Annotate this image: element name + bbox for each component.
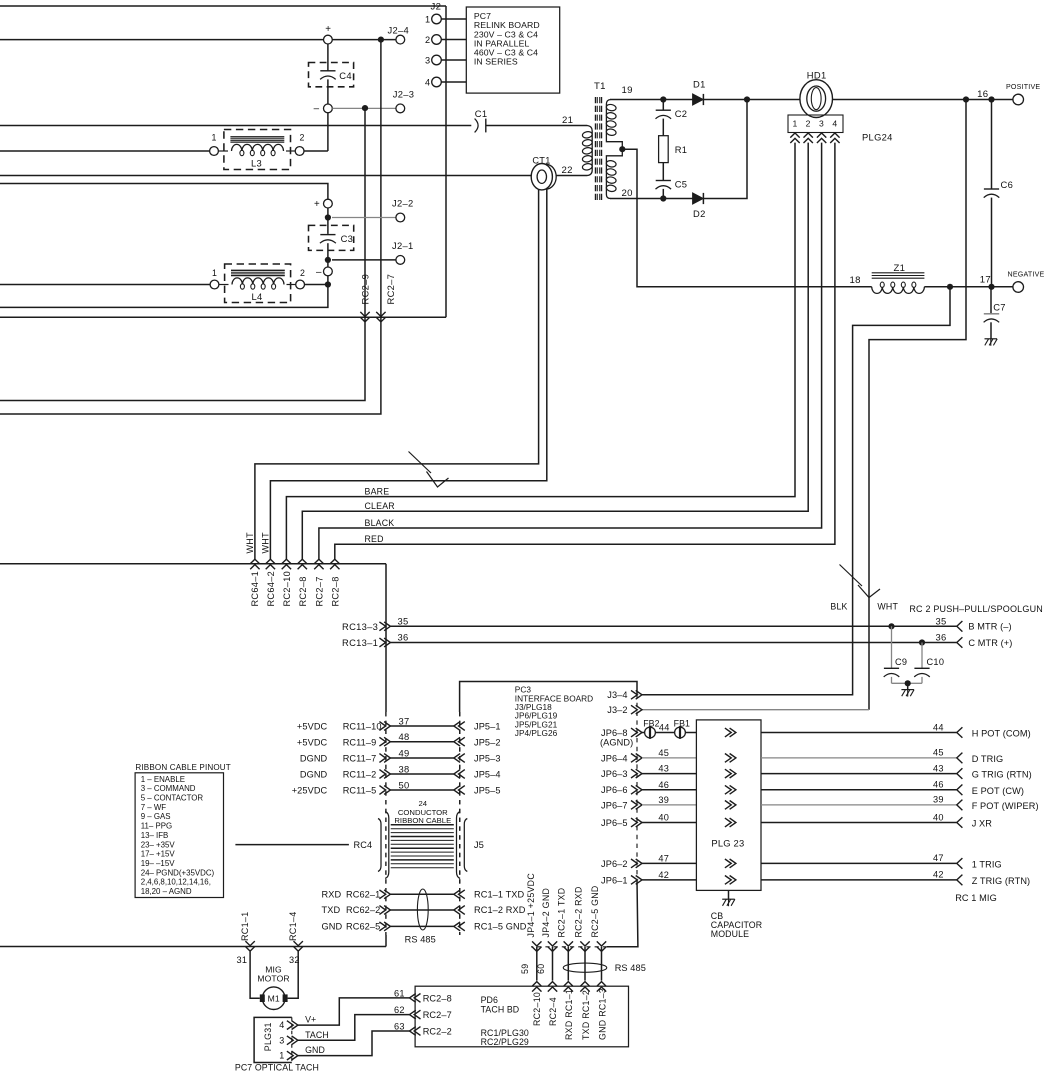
label RC 2 PUSH-PULL/SPOOLGUN — [909, 604, 1043, 614]
svg-text:GND RC1–3: GND RC1–3 — [597, 988, 607, 1040]
wire right chassis boundary — [445, 6, 447, 317]
wire RC4 leader — [235, 844, 349, 846]
wire CLEAR — [302, 143, 808, 560]
inductor Z1 — [872, 263, 925, 293]
label 61 — [394, 989, 405, 999]
wire 20 rail — [610, 198, 693, 200]
wire to J2-2 — [332, 217, 396, 219]
node junction C9 C10 ground — [905, 680, 911, 686]
label 35 left — [398, 615, 409, 626]
wire tach feed 1 — [536, 947, 538, 981]
connector arrow PLG24-3 — [817, 133, 826, 143]
svg-text:JP6–1: JP6–1 — [601, 875, 628, 885]
label TACH — [305, 1030, 329, 1040]
svg-text:1 TRIG: 1 TRIG — [972, 859, 1002, 869]
label PLG31 pin 4 — [279, 1020, 284, 1030]
svg-text:PLG31: PLG31 — [263, 1022, 273, 1051]
wire 42 left segment — [642, 879, 696, 881]
label RS 485 right — [615, 963, 646, 973]
svg-text:RC2–2 RXD: RC2–2 RXD — [573, 886, 583, 937]
inductor L4 — [210, 264, 305, 303]
svg-text:PD6: PD6 — [481, 995, 498, 1005]
svg-text:TACH BD: TACH BD — [481, 1005, 520, 1015]
label C MTR — [968, 638, 1012, 648]
connector arrow PLG31-4 — [287, 1021, 298, 1030]
label J3-4 — [607, 690, 627, 700]
wire WHT to J3-2 — [642, 100, 966, 710]
transformer T1 label — [594, 81, 606, 92]
label 60 — [536, 964, 546, 974]
svg-text:D2: D2 — [693, 208, 706, 219]
connector arrow tach 4 — [580, 982, 589, 992]
svg-text:42: 42 — [933, 870, 944, 880]
connector arrow RC13-1 — [379, 638, 390, 647]
svg-text:44: 44 — [659, 722, 670, 732]
terminal J2-2 — [392, 198, 414, 222]
svg-text:35: 35 — [398, 615, 409, 626]
svg-text:60: 60 — [536, 964, 546, 974]
svg-text:JP6–2: JP6–2 — [601, 859, 628, 869]
label 49 — [399, 747, 410, 758]
svg-text:WHT: WHT — [245, 532, 255, 554]
connector arrow JP6&#8211;4 — [631, 754, 642, 763]
connector arrow JP6&#8211;2 — [631, 859, 642, 868]
wire to C4 plus node — [0, 39, 323, 41]
label E POT (CW) — [972, 786, 1024, 796]
label 43 right — [933, 763, 944, 773]
label 43 left — [658, 764, 669, 774]
svg-text:RXD: RXD — [322, 890, 342, 900]
connector arrow RC2-9 — [360, 312, 369, 322]
terminal POSITIVE — [1006, 83, 1040, 105]
capacitor C9 — [884, 626, 908, 683]
hall sensor HD1 — [800, 70, 833, 118]
connector arrow RC1&#8211;5 GND — [454, 922, 465, 931]
connector arrow JP4 bundle 2 — [548, 941, 557, 951]
capacitor C10 — [908, 643, 945, 684]
svg-text:RC11–5: RC11–5 — [343, 786, 377, 796]
svg-text:RC1–4: RC1–4 — [288, 911, 298, 941]
node junction L4 — [325, 281, 331, 287]
wire BLACK — [319, 143, 822, 560]
label WHT — [877, 602, 898, 612]
svg-text:46: 46 — [658, 780, 669, 790]
svg-text:RC2–7: RC2–7 — [385, 274, 396, 305]
wire tach feed 5 — [601, 947, 603, 981]
node minus terminal C3 — [316, 267, 332, 278]
arrow D TRIG — [957, 753, 963, 764]
label 42 left — [658, 870, 669, 880]
text PC3 block — [515, 685, 593, 739]
svg-text:RC4: RC4 — [354, 840, 373, 850]
svg-text:BLK: BLK — [830, 602, 847, 612]
label TXD RC62&#8211;2 — [322, 905, 381, 915]
svg-text:RC11–7: RC11–7 — [343, 754, 377, 764]
label 31 — [237, 955, 248, 965]
label RC64-1 — [250, 571, 260, 607]
wire center tap to Z1 — [622, 149, 871, 287]
node junction C2 top — [660, 96, 666, 102]
connector J2 pin 2 — [425, 35, 466, 45]
label pin 19 — [622, 85, 633, 96]
label 38 — [399, 763, 410, 774]
svg-text:2,4,6,8,10,12,14,16,: 2,4,6,8,10,12,14,16, — [141, 878, 211, 887]
svg-text:RC2–9: RC2–9 — [359, 274, 370, 305]
svg-text:36: 36 — [398, 632, 409, 643]
node junction C9 — [888, 623, 894, 629]
svg-text:JP4/PLG26: JP4/PLG26 — [515, 728, 558, 738]
wire 50 row — [390, 789, 453, 791]
label PC7 OPTICAL TACH — [235, 1063, 319, 1072]
svg-text:RC2/PLG29: RC2/PLG29 — [481, 1037, 529, 1047]
svg-text:1: 1 — [279, 1051, 284, 1061]
svg-text:RXD RC1–1: RXD RC1–1 — [564, 989, 574, 1040]
connector arrow JP5&#8211;2 — [454, 737, 465, 746]
transformer T1 primary winding — [582, 126, 593, 176]
wire 47 left segment — [642, 862, 696, 864]
svg-text:J2–1: J2–1 — [392, 240, 414, 251]
svg-text:JP4–1 +25VDC: JP4–1 +25VDC — [526, 873, 536, 938]
capacitor C1 — [475, 108, 488, 132]
svg-text:RC11–9: RC11–9 — [343, 737, 377, 747]
label 16 — [977, 89, 988, 100]
svg-text:PLG24: PLG24 — [862, 132, 893, 143]
diode D2 — [693, 193, 706, 219]
svg-text:RC13–3: RC13–3 — [342, 621, 378, 632]
wire BLK to J3-4 — [642, 287, 950, 695]
label RXD RC1-1 — [564, 989, 574, 1040]
wire 19 rail — [610, 99, 693, 101]
svg-text:RC1–1 TXD: RC1–1 TXD — [474, 890, 525, 900]
label 40 right — [933, 812, 944, 822]
connector arrow RC11&#8211;9 — [379, 737, 390, 746]
label JP6&#8211;6 — [601, 785, 628, 795]
ground C7 — [985, 339, 998, 346]
label RC2-8d — [330, 576, 340, 606]
svg-text:J2–3: J2–3 — [393, 88, 415, 99]
connector arrow PLG23 row 47 — [725, 859, 736, 868]
svg-text:18,20 – AGND: 18,20 – AGND — [141, 887, 192, 896]
svg-text:WHT: WHT — [877, 602, 898, 612]
connector arrow PLG23 row 39 — [725, 801, 736, 810]
svg-text:18: 18 — [850, 275, 861, 286]
connector arrow tach RC2&#8211;8 — [410, 994, 421, 1003]
label JP4-1 +25VDC — [526, 873, 536, 938]
svg-text:45: 45 — [658, 748, 669, 758]
svg-text:RC11–10: RC11–10 — [343, 722, 382, 732]
wire 40 left segment — [642, 822, 696, 824]
wire RC2-9 drop — [0, 108, 365, 400]
cable boundary left dashed — [385, 712, 387, 935]
wire 38 row — [390, 773, 453, 775]
label RC2&#8211;7 tach — [423, 1010, 452, 1020]
svg-text:2: 2 — [300, 268, 305, 278]
wire RXD row — [390, 893, 453, 895]
arrow Z TRIG (RTN) — [957, 875, 963, 886]
svg-text:1: 1 — [792, 119, 797, 129]
connector J2 label — [431, 1, 442, 12]
svg-text:4: 4 — [425, 77, 430, 87]
svg-text:T1: T1 — [594, 81, 606, 92]
label 45 right — [933, 748, 944, 758]
connector arrow PLG31-3 — [287, 1036, 298, 1045]
label PLG31 pin 3 — [279, 1035, 284, 1045]
svg-text:3 – COMMAND: 3 – COMMAND — [141, 784, 196, 793]
wire RED — [335, 143, 835, 560]
svg-text:FB1: FB1 — [674, 719, 690, 729]
label Z TRIG (RTN) — [972, 876, 1031, 886]
label RC2-9 — [359, 274, 370, 305]
wire motor terminal 31 — [250, 952, 260, 999]
svg-text:C2: C2 — [675, 108, 688, 119]
label RC2-7c — [315, 576, 325, 606]
label RS 485 left — [405, 935, 436, 945]
connector arrow RC13-3 — [379, 622, 390, 631]
transformer T1 core — [595, 97, 601, 202]
svg-text:RC1–2 RXD: RC1–2 RXD — [474, 905, 526, 915]
svg-text:G TRIG (RTN): G TRIG (RTN) — [972, 770, 1032, 780]
svg-text:RC1–1: RC1–1 — [240, 911, 250, 941]
connector arrow PLG31-1 — [287, 1051, 298, 1060]
svg-text:RC2–10: RC2–10 — [282, 571, 292, 607]
svg-text:49: 49 — [399, 747, 410, 758]
connector arrow JP6&#8211;8 — [631, 728, 642, 737]
label RC1&#8211;2 RXD — [474, 905, 526, 915]
connector arrow PLG23 row 44 — [725, 728, 736, 737]
label JP5&#8211;3 — [474, 754, 501, 764]
svg-text:19– –15V: 19– –15V — [141, 859, 176, 868]
label pin 20 — [622, 188, 633, 199]
svg-text:MOTOR: MOTOR — [257, 974, 289, 984]
label JP6&#8211;8 — [601, 728, 628, 738]
arrow C MTR — [957, 637, 963, 648]
wire 63 — [298, 1031, 410, 1056]
label 40 left — [658, 813, 669, 823]
connector arrow JP4 bundle 5 — [597, 941, 606, 951]
label TXD RC1-2 — [581, 990, 591, 1040]
arrow J XR — [957, 817, 963, 828]
connector arrow RC11&#8211;5 — [379, 786, 390, 795]
connector arrow RC1-4 — [294, 941, 303, 951]
label BLK — [830, 602, 847, 612]
svg-text:3: 3 — [819, 119, 824, 129]
svg-text:FB2: FB2 — [643, 719, 659, 729]
board PC3 right edge dashed — [636, 694, 638, 880]
wire 42 right segment — [761, 879, 957, 881]
node junction J2-2 — [325, 214, 331, 220]
label H POT (COM) — [972, 729, 1031, 739]
svg-text:+5VDC: +5VDC — [297, 722, 328, 732]
connector arrow JP6&#8211;5 — [631, 818, 642, 827]
svg-text:47: 47 — [933, 853, 944, 863]
label WHT wire2 — [261, 532, 271, 554]
cable break mark — [409, 452, 449, 488]
svg-text:4: 4 — [279, 1020, 284, 1030]
svg-text:CT1: CT1 — [532, 156, 550, 166]
capacitor C5 — [656, 163, 688, 199]
connector arrow RC62&#8211;2 — [379, 906, 390, 915]
svg-text:WHT: WHT — [261, 532, 271, 554]
wire 48 row — [390, 741, 453, 743]
label JP4-2 GND — [541, 888, 551, 938]
label 46 right — [933, 780, 944, 790]
svg-text:L3: L3 — [251, 158, 262, 169]
connector arrow RC2-8b — [330, 559, 339, 569]
label JP6&#8211;4 — [601, 753, 628, 763]
wire line 21 left segment — [0, 125, 471, 127]
svg-text:H POT (COM): H POT (COM) — [972, 729, 1031, 739]
connector arrow RC1-1 — [245, 941, 254, 951]
svg-text:E POT (CW): E POT (CW) — [972, 786, 1024, 796]
cable shield RS 485 right — [563, 963, 607, 972]
svg-text:–: – — [316, 267, 322, 278]
label RED — [365, 534, 384, 544]
label GND RC62&#8211;5 — [322, 922, 381, 932]
svg-text:JP6–6: JP6–6 — [601, 785, 628, 795]
wire L4 pin2 to node — [305, 284, 328, 286]
svg-text:17: 17 — [980, 275, 991, 286]
wire 61 — [298, 998, 410, 1025]
node junction center tap — [619, 146, 625, 152]
node junction C10 — [919, 639, 925, 645]
wire 37 row — [390, 725, 453, 727]
label 32 — [289, 955, 300, 965]
node junction D2 rail — [744, 96, 750, 102]
svg-text:J XR: J XR — [972, 819, 993, 829]
wire 45 right segment — [761, 757, 957, 759]
label GND RC1-3 — [597, 988, 607, 1040]
wire Z1 to negative terminal — [924, 286, 1012, 288]
svg-text:J2–4: J2–4 — [388, 25, 410, 36]
motor M1 — [260, 987, 288, 1010]
svg-text:61: 61 — [394, 989, 405, 999]
label DGND RC11&#8211;7 — [300, 754, 376, 764]
svg-text:RC2–10: RC2–10 — [532, 992, 542, 1026]
svg-text:35: 35 — [936, 615, 947, 626]
svg-text:J3–4: J3–4 — [607, 690, 627, 700]
connector arrow RC11&#8211;2 — [379, 770, 390, 779]
board PC7 relink — [466, 7, 559, 93]
connector arrow J3-2 — [631, 705, 642, 714]
wire 43 left segment — [642, 773, 696, 775]
wire motor terminal 32 — [288, 952, 299, 999]
svg-text:63: 63 — [394, 1022, 405, 1032]
connector arrow PLG24-1 — [790, 133, 799, 143]
label 63 — [394, 1022, 405, 1032]
svg-text:62: 62 — [394, 1005, 405, 1015]
svg-text:43: 43 — [658, 764, 669, 774]
connector arrow tach RC2&#8211;2 — [410, 1027, 421, 1036]
svg-text:37: 37 — [399, 715, 410, 726]
svg-text:JP5–5: JP5–5 — [474, 786, 501, 796]
svg-text:11– PPG: 11– PPG — [141, 822, 172, 831]
label MIG MOTOR — [257, 964, 289, 983]
connector J2 pin 1 — [425, 14, 466, 24]
wire 44 segment a — [642, 732, 644, 734]
connector arrow tach 1 — [532, 982, 541, 992]
label DGND RC11&#8211;2 — [300, 770, 376, 780]
label PLG24 — [862, 132, 893, 143]
label +25VDC RC11&#8211;5 — [292, 786, 377, 796]
node junction C5 bottom — [660, 195, 666, 201]
label 44 right — [933, 722, 944, 732]
svg-text:RC2–8: RC2–8 — [423, 993, 452, 1003]
wire to L3 pin 1 — [0, 150, 210, 152]
svg-text:HD1: HD1 — [807, 70, 827, 81]
board PD6 TACH BD — [415, 986, 628, 1047]
wire minus node to J2-3 — [332, 107, 396, 109]
label F POT (WIPER) — [972, 801, 1039, 811]
svg-text:RC2–4: RC2–4 — [548, 997, 558, 1026]
capacitor C7 — [984, 287, 1006, 339]
wire CT1 lead 1 — [255, 189, 539, 559]
connector arrow JP4 bundle 4 — [580, 941, 589, 951]
svg-text:3: 3 — [279, 1035, 284, 1045]
svg-text:46: 46 — [933, 780, 944, 790]
connector arrow JP6&#8211;3 — [631, 769, 642, 778]
connector arrow RC64-1 — [250, 559, 259, 569]
svg-text:(AGND): (AGND) — [600, 738, 633, 748]
svg-text:RIBBON CABLE PINOUT: RIBBON CABLE PINOUT — [135, 763, 231, 772]
label WHT wire1 — [245, 532, 255, 554]
svg-text:POSITIVE: POSITIVE — [1006, 83, 1040, 91]
wire 47 right segment — [761, 862, 957, 864]
svg-text:D1: D1 — [693, 79, 706, 90]
board PC3 outline top — [460, 682, 637, 713]
wire 39 left segment — [642, 804, 696, 806]
wire CT1 lead 2 — [270, 189, 546, 559]
label 62 — [394, 1005, 405, 1015]
label J5 — [474, 839, 484, 850]
label 48 — [399, 731, 410, 742]
label BLACK — [365, 518, 395, 528]
svg-text:16: 16 — [977, 89, 988, 100]
label 50 — [399, 779, 410, 790]
svg-text:RC64–2: RC64–2 — [266, 571, 276, 607]
svg-text:BARE: BARE — [365, 486, 390, 496]
svg-text:F POT (WIPER): F POT (WIPER) — [972, 801, 1039, 811]
svg-text:J3–2: J3–2 — [607, 705, 627, 715]
svg-text:JP6–8: JP6–8 — [601, 728, 628, 738]
wire 45 left segment — [642, 757, 696, 759]
cable break mark 2 — [840, 565, 881, 598]
svg-text:RED: RED — [365, 534, 384, 544]
svg-text:1: 1 — [212, 133, 217, 143]
wire 46 right segment — [761, 789, 957, 791]
label CLEAR — [365, 501, 395, 511]
board PC3 right edge lower — [607, 880, 638, 947]
node junction positive-C6 — [988, 96, 994, 102]
svg-text:BLACK: BLACK — [365, 518, 395, 528]
svg-text:RC2–1 TXD: RC2–1 TXD — [557, 888, 567, 938]
terminal J2-1 — [392, 240, 414, 264]
svg-text:47: 47 — [658, 853, 669, 863]
label JP5&#8211;1 — [474, 722, 501, 732]
svg-text:2: 2 — [300, 133, 305, 143]
connector PLG 23 — [696, 720, 761, 891]
svg-text:17– +15V: 17– +15V — [141, 850, 176, 859]
svg-text:RC2–7: RC2–7 — [423, 1010, 452, 1020]
svg-text:1: 1 — [212, 268, 217, 278]
svg-text:2: 2 — [425, 35, 430, 45]
arrow 1 TRIG — [957, 858, 963, 869]
label RC2-1 TXD — [557, 888, 567, 938]
connector arrow JP5&#8211;4 — [454, 770, 465, 779]
svg-text:MODULE: MODULE — [711, 929, 749, 939]
inductor L3 — [210, 130, 305, 170]
svg-text:DGND: DGND — [300, 754, 328, 764]
node junction negative-BLK — [947, 284, 953, 290]
